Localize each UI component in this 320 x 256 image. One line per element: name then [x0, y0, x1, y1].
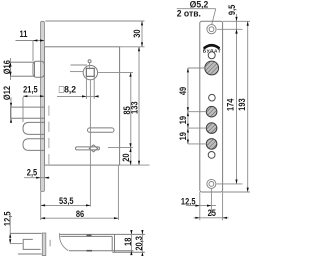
dim square 8,2 [57, 84, 99, 98]
weld dot circle [209, 94, 216, 101]
spindle hub circle [83, 65, 97, 79]
extension line from faceplate top [45, 20, 144, 22]
dim diam12 (rotated) [1, 86, 12, 123]
break line arc [60, 233, 69, 251]
svg-text:21,5: 21,5 [23, 84, 38, 95]
pin 3 (capsule) [23, 139, 45, 151]
dim 53,5 [41, 195, 91, 206]
svg-text:19: 19 [177, 116, 188, 125]
dim 193 (rotated) [223, 21, 250, 192]
dim 12,5 (bottom view, rotated) [1, 211, 22, 243]
extension line from case right bottom [117, 165, 119, 220]
bolt hole 2 (hatched) [206, 106, 217, 117]
lever bar B with diamond [76, 145, 100, 152]
svg-text:53,5: 53,5 [59, 195, 74, 206]
dim 86 [41, 208, 119, 219]
follower lines left of hub [71, 64, 88, 66]
svg-text:193: 193 [236, 98, 247, 111]
case bottom view outline [60, 234, 145, 252]
bolt hole 3 (hatched) [206, 123, 217, 134]
dim 12,5 (right view bottom) [181, 189, 216, 221]
svg-text:12,5: 12,5 [1, 211, 12, 226]
svg-text:2 отв.: 2 отв. [177, 8, 201, 19]
label diam 5,2 / 2 otv. [177, 0, 216, 25]
short inner line in bottom view [49, 240, 51, 247]
pin 2 (capsule) [23, 122, 45, 134]
hidden dashed line inside case [48, 106, 50, 165]
dim 30 (rotated) [131, 21, 143, 47]
dim 2,5 (faceplate thickness) [24, 166, 50, 178]
dim 21,5 [23, 84, 44, 122]
dim 11 (top) [16, 28, 45, 61]
dim 20 (rotated) [120, 148, 131, 166]
dim 25 [194, 192, 229, 220]
dim 18 (rotated) [122, 230, 133, 255]
extension from square hole left side [85, 76, 87, 99]
top screw hole [207, 25, 216, 34]
dim 174 (rotated) [216, 29, 242, 184]
svg-text:20: 20 [120, 153, 131, 162]
faceplate (edge view, grey strip) [41, 21, 45, 191]
svg-text:□8,2: □8,2 [59, 84, 76, 95]
square hole 8.2 [86, 68, 94, 76]
vertical centre extension from square hole down to 53,5 dim [89, 80, 91, 206]
lock case body [44, 47, 119, 165]
pin 1 (diam 12, top) [11, 107, 45, 118]
small tick details [87, 234, 92, 236]
small circle under logo [208, 52, 215, 59]
svg-text:2,5: 2,5 [27, 166, 38, 177]
crossbar rod (diam 16) [11, 61, 45, 77]
brand logo arc [203, 45, 221, 54]
faceplate front [200, 21, 223, 192]
svg-text:11: 11 [19, 28, 27, 39]
svg-text:49: 49 [177, 87, 188, 96]
dim 85 (rotated) [121, 72, 132, 147]
bolt block left (bottom view) [10, 233, 42, 254]
svg-text:9,5: 9,5 [226, 5, 237, 16]
dim 9,5 (rotated) + shared 174 line [217, 5, 250, 35]
faceplate band (bottom view) [42, 233, 46, 256]
big bolt hole (hatched) [205, 61, 219, 75]
small screw circle above hub [88, 60, 91, 63]
bottom screw hole [207, 179, 216, 188]
extension line from faceplate bottom [40, 192, 42, 221]
bolt hole 4 (hatched) [206, 139, 217, 150]
svg-text:174: 174 [224, 98, 235, 111]
svg-text:30: 30 [131, 29, 142, 38]
dim 20,3 (rotated) [133, 230, 144, 256]
chain dim 49/19/19 line [187, 68, 207, 144]
right-side leader lines of main view [120, 46, 145, 48]
dim 133 (rotated) [128, 47, 140, 165]
svg-text:19: 19 [177, 132, 188, 141]
weld dot circle lower [208, 152, 215, 159]
svg-text:25: 25 [208, 207, 217, 218]
lever bar A with knob [88, 128, 115, 132]
dim diam16 (rotated) [1, 58, 12, 80]
